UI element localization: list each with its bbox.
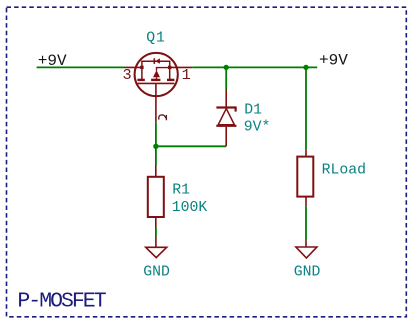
wire +9V rail right bbox=[192, 66, 317, 68]
R1 top pin lead bbox=[155, 166, 157, 177]
Q1 channel dash middle bbox=[151, 79, 160, 81]
Q1 pin number 2 bbox=[159, 115, 167, 120]
GND right triangle bbox=[296, 247, 317, 258]
wire +9V rail left bbox=[37, 66, 125, 68]
Q1 body diode cathode bar bbox=[153, 58, 155, 64]
ground GND right bbox=[296, 240, 317, 258]
svg-text:GND: GND bbox=[294, 264, 321, 280]
Q1 pin 3 lead bbox=[125, 66, 142, 68]
wire gate node to D1 bbox=[156, 145, 226, 147]
resistor R1 bbox=[148, 166, 164, 228]
wire R1 to GND bbox=[155, 228, 157, 238]
R1 bottom pin lead bbox=[155, 217, 157, 228]
Q1 channel dash right bbox=[167, 79, 174, 81]
svg-text:R1: R1 bbox=[172, 182, 190, 198]
transistor Q1 bbox=[125, 53, 193, 123]
wire rail to D1 bbox=[225, 67, 227, 89]
wire RLoad to GND bbox=[305, 206, 307, 240]
Q1 gate pin 2 lead bbox=[155, 83, 157, 122]
junction at RLoad top bbox=[303, 65, 308, 70]
svg-text:9V*: 9V* bbox=[244, 120, 271, 136]
svg-text:P-MOSFET: P-MOSFET bbox=[17, 290, 106, 314]
Q1 bulk connection to pin1 bbox=[157, 68, 170, 71]
Q1 gate plate bbox=[137, 82, 174, 84]
svg-text:D1: D1 bbox=[244, 103, 262, 119]
RLoad bottom pin lead bbox=[305, 197, 307, 207]
Q1 body circle bbox=[135, 53, 178, 96]
Q1 pin1 connection square bbox=[168, 66, 171, 69]
D1 zener hook bbox=[235, 108, 237, 112]
GND left pin lead bbox=[155, 237, 157, 247]
junction gate node bbox=[153, 144, 158, 149]
ground GND left bbox=[146, 237, 167, 258]
R1 body bbox=[148, 177, 164, 217]
D1 anode triangle bbox=[218, 109, 234, 125]
svg-text:Q1: Q1 bbox=[146, 30, 166, 46]
Q1 bulk arrow stem bbox=[156, 77, 158, 79]
Q1 pin 1 lead bbox=[170, 66, 193, 68]
svg-text:+9V: +9V bbox=[38, 52, 67, 70]
RLoad top pin lead bbox=[305, 150, 307, 157]
svg-text:100K: 100K bbox=[172, 200, 208, 216]
Q1 bulk arrow bbox=[153, 70, 160, 77]
svg-text:+9V: +9V bbox=[319, 52, 348, 70]
svg-text:3: 3 bbox=[123, 66, 132, 84]
Q1 source-drain top bridge bbox=[142, 61, 170, 79]
svg-text:GND: GND bbox=[143, 265, 170, 281]
Q1 body diode arrow bbox=[155, 58, 160, 63]
D1 bottom pin lead bbox=[225, 127, 227, 147]
Q1 channel dash left bbox=[137, 79, 144, 81]
wire rail to RLoad bbox=[305, 67, 307, 149]
diode D1 bbox=[216, 89, 236, 146]
D1 top pin lead bbox=[225, 89, 227, 107]
junction at D1 top bbox=[224, 65, 229, 70]
D1 cathode bar bbox=[216, 106, 236, 108]
RLoad body bbox=[297, 157, 313, 197]
resistor RLoad bbox=[297, 150, 313, 207]
svg-text:RLoad: RLoad bbox=[322, 163, 366, 179]
svg-text:1: 1 bbox=[182, 66, 191, 84]
wire gate node vertical bbox=[155, 123, 157, 166]
GND right pin lead bbox=[305, 240, 307, 247]
Q1 pin3 connection square bbox=[140, 66, 143, 69]
GND left triangle bbox=[146, 247, 167, 257]
D1 anode bar bbox=[216, 125, 236, 127]
